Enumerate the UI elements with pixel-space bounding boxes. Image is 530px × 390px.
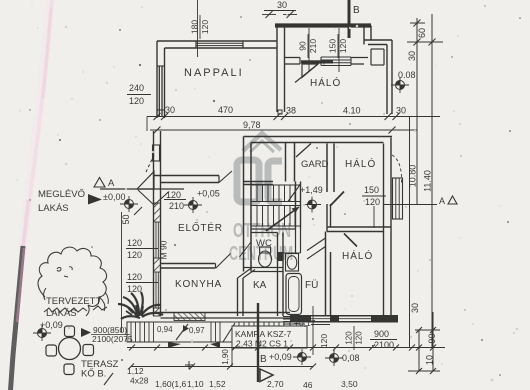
survey point top right xyxy=(391,77,409,93)
small square tick 38 xyxy=(278,110,282,114)
window nappali top xyxy=(196,42,243,44)
window halo 150/120 xyxy=(321,56,351,58)
window left upper (existing flat) xyxy=(153,145,160,161)
tick 30 xyxy=(407,41,443,43)
right bottom dim lines xyxy=(409,117,411,348)
wall: gard/halo divider xyxy=(326,144,328,193)
level -0.08 bottom xyxy=(325,350,343,366)
dim label 30 rot xyxy=(407,51,417,61)
arrow terrace door xyxy=(81,328,91,337)
washbasin fu xyxy=(286,254,299,272)
dim rot 120/120 xyxy=(345,326,364,350)
wall: konyha top xyxy=(161,263,216,265)
wall: halo top thick xyxy=(275,23,371,27)
dim line main y116 xyxy=(147,116,440,118)
wall: south bottom halo thick xyxy=(290,315,398,323)
door arc dashed right xyxy=(392,155,402,184)
hatch block wall left 1 xyxy=(154,203,161,222)
terrace steps band xyxy=(127,322,290,342)
door leaf gard entrance xyxy=(296,144,311,158)
bathtub xyxy=(286,274,302,315)
wall: gard top xyxy=(244,136,393,138)
dashed opening existing flat xyxy=(146,155,154,172)
hatch block wall left 2 xyxy=(154,258,161,272)
section line B top xyxy=(348,0,351,38)
section line B lower xyxy=(257,303,259,382)
section A line right xyxy=(384,204,438,206)
shaft notch right xyxy=(371,48,384,50)
step arrows below band xyxy=(168,342,181,348)
wall: nappali top outer xyxy=(157,40,277,42)
level line A xyxy=(100,188,184,190)
door konyha swing xyxy=(216,254,231,269)
wall: stairwell cap xyxy=(244,181,274,183)
scan artifact: pink streak left edge xyxy=(22,0,50,252)
plus tick bottom xyxy=(185,364,193,366)
staircase xyxy=(251,185,301,226)
wall: halo right step xyxy=(370,26,372,41)
window left wall mid xyxy=(155,222,157,258)
dim line 9.78 xyxy=(150,129,417,131)
survey point left xyxy=(120,196,138,212)
wall: nappali top inner xyxy=(165,47,278,49)
wall: halo mid bottom xyxy=(327,226,391,228)
wall: wc bottom xyxy=(244,267,284,269)
stair arrow xyxy=(266,207,299,231)
dim rot M90 xyxy=(159,240,169,259)
scan artifact: dark page edge bottom-left xyxy=(11,246,24,390)
kamra text box xyxy=(232,326,307,348)
wall: right upper vertical xyxy=(391,40,393,114)
survey point gard xyxy=(303,197,321,213)
shaft wall small xyxy=(295,229,297,253)
dim rot 120 kamra xyxy=(319,334,329,348)
wall: nappali left outer xyxy=(156,41,158,118)
window smudge dark bar xyxy=(301,60,333,63)
toilet wc xyxy=(260,247,271,253)
chamfer ka entrance xyxy=(238,268,253,279)
wall: fu/halo divider xyxy=(325,232,327,317)
entrance door leaf xyxy=(137,172,154,190)
window nappali left xyxy=(158,66,160,116)
wall: stair/gard divider lower xyxy=(295,182,297,230)
stair winder diagonal xyxy=(288,184,301,202)
door leaf gard/halo xyxy=(330,192,344,207)
dim line right 10.80 xyxy=(416,18,418,204)
wall: halo inner right stub xyxy=(351,57,368,59)
wall: stairwell upper right xyxy=(285,143,287,182)
window south halo xyxy=(339,316,371,322)
wall: wc top xyxy=(251,228,296,230)
wall: south bottom left part xyxy=(154,312,291,314)
marker A left xyxy=(94,178,105,188)
window south fu xyxy=(283,316,305,318)
dim label 180/120 (window) xyxy=(190,15,211,39)
door halo swing xyxy=(302,64,318,78)
wall: halo inner stub xyxy=(285,57,301,59)
door wc swing xyxy=(240,242,252,257)
watermark: Otthon Centrum logo xyxy=(237,133,282,202)
dim label 60 rot xyxy=(417,28,427,38)
wall: eloter top xyxy=(154,175,220,177)
hatch block wall left 3 xyxy=(154,308,161,316)
wall: stairwell left xyxy=(243,137,245,272)
shaft dark block xyxy=(278,252,284,261)
long dim line y366 xyxy=(131,366,313,368)
wall: konyha/ka divider xyxy=(237,278,239,316)
palm plant xyxy=(118,292,163,319)
window left wall low xyxy=(155,272,157,308)
dim label 10.80 rot xyxy=(408,165,418,188)
hatch block south wall xyxy=(174,313,205,321)
survey point tervezett xyxy=(33,325,51,341)
wall: nappali/halo divider xyxy=(276,27,278,112)
survey point eloter xyxy=(184,197,202,213)
dim label 90/210 (door halo) xyxy=(298,34,319,58)
door leaf halo bottom xyxy=(344,234,357,247)
dim line right 11.40 xyxy=(431,14,433,347)
long dim line y347 xyxy=(127,347,445,349)
tree bush xyxy=(38,247,107,306)
wall: nappali left inner xyxy=(164,48,166,118)
steps diagonals xyxy=(176,324,188,340)
door chamfer fu xyxy=(307,238,326,251)
window/door south small xyxy=(311,316,330,322)
dim rot 90 bottom mid xyxy=(221,349,230,365)
wall: left exterior lower xyxy=(153,131,155,316)
dim label 150/120 (window halo) xyxy=(328,34,349,58)
door eloter swing xyxy=(219,171,232,183)
dim pointer window nappali xyxy=(197,0,199,57)
wall: wc/shaft divider xyxy=(277,233,279,317)
terrace table xyxy=(59,338,81,360)
wall: right exterior lower xyxy=(390,138,392,323)
window bulge right xyxy=(393,178,403,219)
dim rot 50 xyxy=(121,214,131,224)
tick 60 top xyxy=(410,22,425,24)
dim label 11.40 rot xyxy=(423,170,433,192)
